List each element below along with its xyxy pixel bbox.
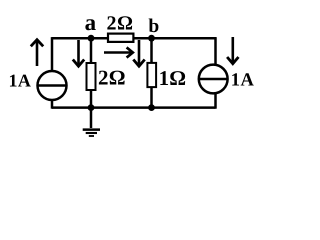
svg-text:2Ω: 2Ω: [107, 13, 134, 35]
arrow current direction I1 up: [31, 40, 43, 66]
arrow current through R1 rightward: [104, 47, 133, 57]
wire right branch bottom stub: [214, 94, 217, 109]
resistor R1 2-ohm horizontal between a and b: [108, 34, 133, 42]
svg-text:b: b: [148, 16, 159, 37]
wire node b to 1-ohm resistor: [150, 38, 153, 64]
ground: [83, 108, 100, 136]
label 1-ohm resistor: [159, 66, 187, 90]
svg-text:a: a: [85, 10, 97, 35]
arrow current direction I2 down: [227, 37, 238, 64]
label 2-ohm vertical resistor: [98, 66, 126, 90]
svg-text:1A: 1A: [9, 70, 32, 90]
wire left branch top stub: [51, 37, 54, 71]
resistor R2 2-ohm vertical below node a: [87, 63, 96, 90]
junction dot bottom left at ground: [88, 104, 95, 111]
svg-text:1A: 1A: [231, 70, 255, 90]
arrow branch current at node a down: [73, 40, 84, 66]
wire 1-ohm resistor to bottom rail: [150, 87, 153, 109]
wire top rail from left source to right branch: [52, 37, 216, 40]
wire left branch bottom stub: [51, 100, 54, 109]
node a junction dot: [88, 35, 95, 42]
label 1A right: [231, 70, 255, 90]
wire right branch top stub: [214, 37, 217, 65]
label node a: [85, 10, 97, 35]
label 1A left: [9, 70, 32, 90]
label 2-ohm horizontal resistor: [107, 13, 134, 35]
svg-text:1Ω: 1Ω: [159, 66, 187, 90]
wire node a to 2-ohm vertical resistor: [90, 38, 93, 64]
label node b: [148, 16, 159, 37]
wire 2-ohm vertical resistor to bottom rail: [90, 90, 93, 109]
wire bottom rail: [52, 106, 216, 109]
svg-text:2Ω: 2Ω: [98, 66, 126, 90]
junction dot bottom under 1-ohm: [148, 104, 155, 111]
node b junction dot: [148, 35, 155, 42]
current source I2 1A right: [199, 65, 228, 94]
arrow branch current at node b down: [133, 40, 144, 66]
current source I1 1A left: [38, 71, 67, 100]
resistor R3 1-ohm vertical below node b: [147, 63, 156, 87]
